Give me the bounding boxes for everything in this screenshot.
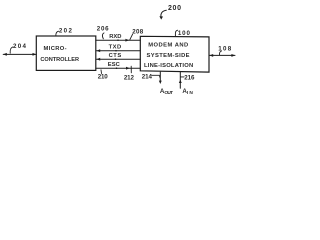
svg-text:OUT: OUT — [164, 90, 173, 96]
label 212 leader — [130, 66, 132, 73]
arrowhead fig 200 — [159, 16, 163, 19]
wire 204 bus — [3, 53, 36, 55]
wire Ain — [179, 72, 181, 88]
label 206 hook — [102, 33, 104, 39]
svg-text:200: 200 — [168, 5, 181, 12]
label 208 leader — [130, 34, 133, 39]
svg-text:SYSTEM-SIDE: SYSTEM-SIDE — [147, 53, 190, 59]
svg-text:208: 208 — [132, 28, 144, 35]
label 210 leader — [100, 70, 103, 74]
svg-text:CTS: CTS — [109, 53, 122, 59]
label 204 hook — [10, 47, 13, 53]
svg-text:206: 206 — [97, 25, 109, 32]
wire ESC — [96, 67, 141, 69]
arrowhead 204 right — [33, 53, 37, 56]
svg-text:204: 204 — [13, 43, 27, 50]
arrowhead 108 left — [209, 54, 213, 57]
svg-text:MICRO-: MICRO- — [44, 46, 67, 52]
arrowhead RXD right — [125, 39, 129, 42]
svg-text:108: 108 — [218, 45, 232, 52]
arrowhead 108 right — [231, 54, 235, 57]
wire 108 line — [209, 54, 235, 56]
arrowhead Aout down — [159, 81, 162, 84]
svg-text:MODEM AND: MODEM AND — [148, 43, 188, 49]
svg-text:216: 216 — [184, 74, 195, 81]
svg-text:IN: IN — [187, 90, 194, 96]
dot on ESC wire — [116, 67, 118, 69]
label 202 hook — [56, 31, 59, 36]
arrowhead Ain up — [179, 80, 182, 83]
wire Aout — [159, 72, 161, 81]
wire TXD — [96, 50, 140, 52]
dot on RXD wire — [117, 39, 119, 41]
label 214 leader — [152, 75, 160, 78]
svg-text:214: 214 — [142, 74, 153, 81]
figure pointer 200 arrow — [161, 10, 166, 17]
svg-text:RXD: RXD — [109, 34, 121, 40]
svg-text:212: 212 — [124, 75, 135, 82]
label 108 hook — [219, 51, 221, 55]
label 100 hook — [175, 30, 177, 36]
wire RXD — [96, 39, 141, 41]
left box 202 microcontroller — [36, 36, 96, 70]
arrowhead CTS left — [96, 58, 100, 61]
svg-text:TXD: TXD — [109, 45, 122, 51]
arrowhead ESC right — [126, 67, 130, 70]
svg-text:LINE-ISOLATION: LINE-ISOLATION — [144, 63, 193, 69]
svg-text:ESC: ESC — [108, 62, 121, 68]
svg-text:202: 202 — [59, 28, 73, 35]
svg-text:CONTROLLER: CONTROLLER — [40, 57, 79, 63]
svg-text:210: 210 — [98, 74, 109, 81]
label 216 leader — [181, 76, 185, 78]
arrowhead 204 left — [3, 53, 7, 56]
wire CTS — [96, 58, 140, 60]
right box modem — [140, 36, 209, 72]
arrowhead TXD left — [96, 49, 100, 52]
dot on TXD wire — [115, 50, 117, 52]
svg-text:100: 100 — [178, 30, 191, 37]
dot on CTS wire — [115, 58, 117, 60]
